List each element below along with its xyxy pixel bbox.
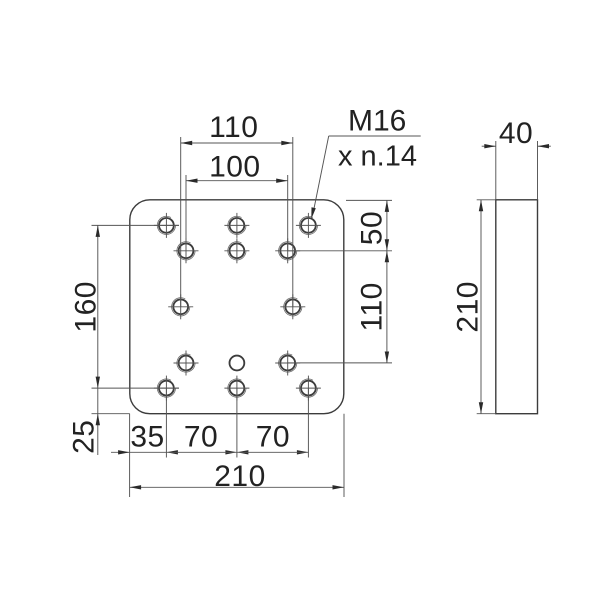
hole B1 M16 — [174, 238, 199, 263]
svg-text:110: 110 — [356, 282, 389, 331]
leader line — [329, 135, 421, 137]
hole E1 M16 — [154, 376, 179, 401]
svg-text:35: 35 — [130, 421, 164, 454]
dim 110 top extension lines — [180, 137, 182, 307]
dim 35 bottom — [111, 451, 166, 453]
left extension lines — [92, 224, 180, 226]
hole A1 M16 — [154, 213, 179, 238]
hole E3 M16 — [296, 376, 321, 401]
hole E2 M16 — [224, 376, 249, 401]
svg-text:160: 160 — [70, 281, 103, 333]
hole D2 plain center — [230, 356, 245, 371]
hole A2 M16 — [224, 213, 249, 238]
hole B2 M16 — [224, 238, 249, 263]
dim 40 — [482, 145, 496, 147]
dim 70 first — [166, 450, 178, 454]
dim 100 — [186, 180, 288, 182]
svg-text:25: 25 — [68, 420, 101, 454]
dim 25 left — [97, 388, 99, 455]
dim 110 right — [386, 251, 388, 363]
plate front view outline — [130, 200, 344, 414]
svg-text:110: 110 — [209, 111, 258, 144]
dim 160 left — [97, 225, 99, 388]
bottom extension lines — [129, 414, 131, 497]
dim 40 extension lines — [495, 141, 497, 200]
svg-text:210: 210 — [214, 460, 266, 493]
dim 100 extension lines — [185, 175, 187, 251]
svg-text:210: 210 — [451, 281, 484, 333]
hole C2 M16 — [280, 294, 305, 319]
hole A3 M16 — [296, 213, 321, 238]
svg-text:40: 40 — [499, 117, 533, 150]
dim 50 right — [386, 200, 388, 250]
hole B3 M16 — [275, 238, 300, 263]
dim 110 top — [181, 142, 293, 144]
side view rectangle — [496, 200, 538, 414]
dim 210 side — [480, 200, 482, 414]
dim 70 second — [237, 450, 249, 454]
dim 210 bottom — [130, 486, 344, 488]
svg-text:70: 70 — [256, 421, 290, 454]
dim 210 bottom extension right — [343, 414, 345, 497]
hole C1 M16 — [168, 294, 193, 319]
hole D1 M16 — [174, 351, 199, 376]
svg-text:M16: M16 — [348, 105, 406, 138]
svg-text:x n.14: x n.14 — [338, 140, 417, 172]
svg-text:50: 50 — [356, 211, 389, 245]
svg-text:70: 70 — [184, 421, 218, 454]
dim 210 side extension lines — [477, 199, 496, 201]
hole D3 M16 — [275, 351, 300, 376]
svg-text:100: 100 — [209, 151, 261, 184]
right extension lines — [346, 199, 392, 201]
